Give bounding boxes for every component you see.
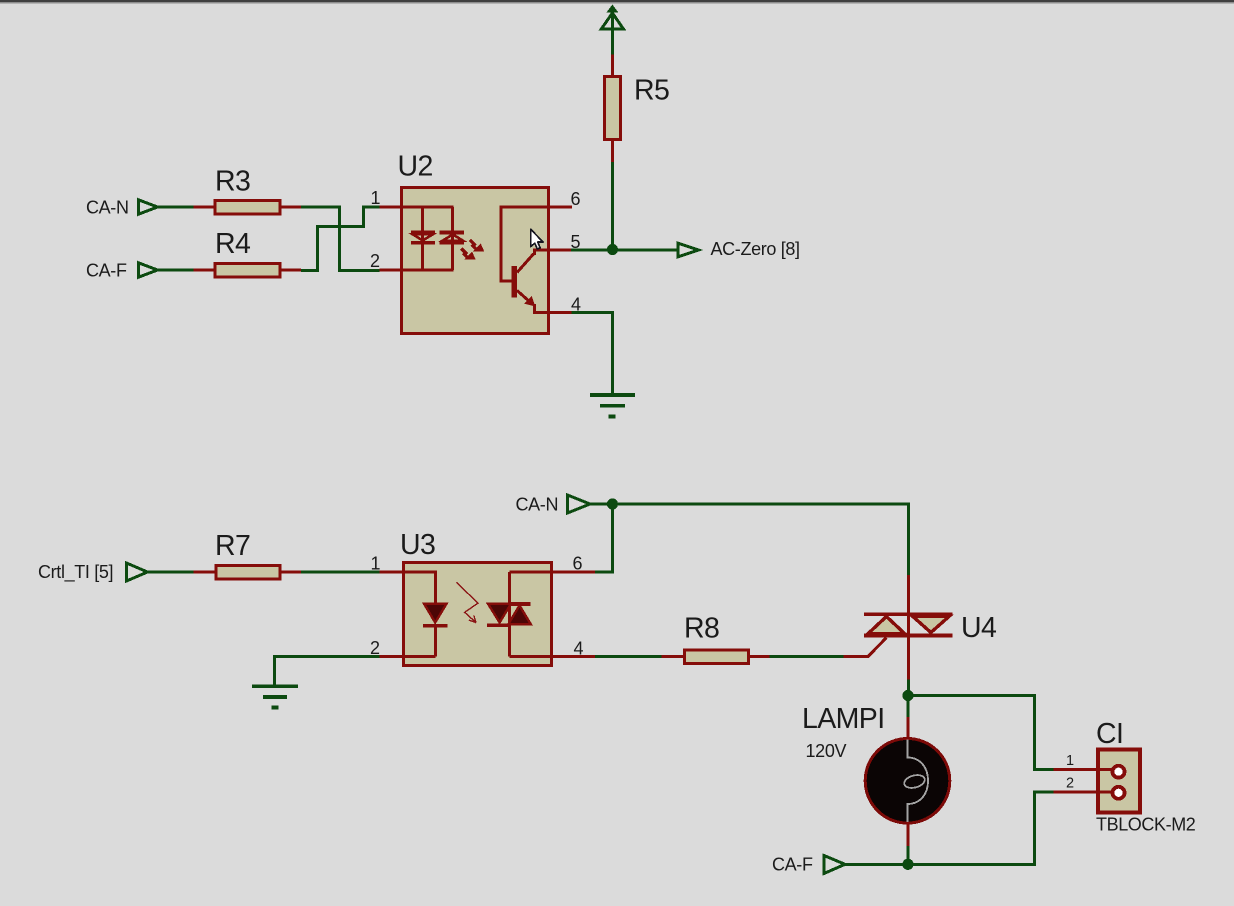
terminal CA-N (lamp section) — [568, 495, 591, 513]
label CA-N (lamp section) — [516, 495, 559, 515]
svg-text:1: 1 — [371, 188, 381, 208]
svg-text:R3: R3 — [215, 166, 250, 198]
terminal AC-Zero — [678, 243, 699, 257]
junction node CA-N — [607, 498, 618, 509]
svg-text:R4: R4 — [215, 228, 251, 260]
svg-text:R8: R8 — [684, 613, 719, 645]
wire: Crtl_TI to R7 — [148, 571, 195, 574]
U3 light arrow — [456, 582, 478, 622]
label R8 — [684, 613, 719, 645]
U2 pin 5 number — [571, 232, 581, 252]
U2 pin 4 stub — [549, 311, 572, 314]
U2 input LED pair — [401, 207, 464, 270]
terminal Crtl_TI — [127, 563, 148, 581]
wire: U4 to lamp junction — [907, 680, 910, 697]
wire: R3 to U2 pin 2 (crossover) — [301, 207, 380, 271]
label R7 — [215, 530, 250, 562]
power terminal (+V arrow) — [601, 5, 623, 31]
label TBLOCK-M2 — [1096, 815, 1196, 835]
svg-text:2: 2 — [370, 251, 380, 271]
label Crtl_TI [5] — [38, 562, 113, 583]
svg-text:CA-F: CA-F — [772, 855, 813, 875]
label CI — [1096, 718, 1123, 750]
svg-text:AC-Zero [8]: AC-Zero [8] — [711, 239, 800, 259]
label CA-F (lamp section) — [772, 855, 813, 875]
wire: junction to CI pin 1 — [908, 696, 1054, 770]
svg-text:U4: U4 — [961, 612, 997, 644]
CI pin 1 lead — [1053, 768, 1112, 771]
top window edge — [0, 0, 1234, 4]
U2 phototransistor — [501, 207, 549, 313]
CI pin 1 pad — [1113, 766, 1125, 778]
U4 gate lead — [843, 638, 886, 657]
U2 pin 1 number — [371, 188, 381, 208]
wire: R7 to U3 pin 1 — [301, 571, 380, 574]
label AC-Zero [8] — [711, 239, 800, 259]
junction node lamp bottom — [902, 859, 913, 870]
resistor R8 — [662, 650, 770, 664]
svg-text:TBLOCK-M2: TBLOCK-M2 — [1096, 815, 1196, 835]
svg-text:6: 6 — [571, 189, 581, 209]
wire: R5 to node AC-Zero — [611, 162, 614, 251]
wire: pin 4 to ground — [572, 313, 613, 394]
U2 light arrow 1 — [470, 240, 484, 251]
resistor R3 — [194, 201, 302, 215]
U2 pin 2 stub — [379, 269, 401, 272]
label CA-F — [86, 261, 127, 281]
label LAMPI — [802, 703, 885, 735]
resistor R5 — [604, 55, 620, 163]
optocoupler U2 body — [402, 188, 549, 334]
optocoupler U3 body — [404, 563, 552, 666]
mouse cursor — [531, 229, 543, 249]
wire: CA-F to R4 — [158, 269, 195, 272]
U3 pin 1 number — [371, 554, 381, 574]
label R5 — [634, 75, 669, 107]
wire: power to R5 — [611, 30, 614, 55]
wire: R8 to U4 gate — [770, 655, 844, 658]
U3 pin 6 stub — [552, 571, 595, 574]
svg-text:1: 1 — [371, 554, 381, 574]
svg-text:CA-N: CA-N — [86, 198, 129, 218]
resistor R7 — [194, 566, 302, 580]
svg-text:6: 6 — [573, 554, 583, 574]
svg-text:CI: CI — [1096, 718, 1123, 750]
label U3 — [400, 529, 435, 561]
wire: CA-F to CI pin 2 — [845, 792, 1054, 864]
U3 pin 2 stub — [379, 655, 403, 658]
svg-text:2: 2 — [1066, 776, 1074, 792]
U2 light arrow 2 — [461, 249, 475, 260]
svg-text:4: 4 — [574, 639, 584, 659]
lamp bottom lead — [907, 822, 910, 864]
wire: CA-N node to triac U4 — [612, 504, 908, 576]
svg-text:CA-F: CA-F — [86, 261, 127, 281]
wire: R4 to U2 pin 1 (crossover) — [301, 207, 380, 271]
junction node at R5 / pin 5 — [607, 244, 618, 255]
label R3 — [215, 166, 250, 198]
triac U4 — [864, 614, 953, 636]
label CA-N — [86, 198, 129, 218]
terminal CA-F (lamp section) — [824, 856, 845, 874]
CI pin 1 number — [1066, 753, 1074, 769]
svg-text:CA-N: CA-N — [516, 495, 559, 515]
svg-text:U3: U3 — [400, 529, 435, 561]
wire: CA-N terminal to junction — [590, 503, 613, 506]
lead U4 MT1 down — [907, 636, 910, 680]
label U2 — [398, 151, 433, 183]
svg-text:1: 1 — [1066, 753, 1074, 769]
CI pin 2 pad — [1113, 787, 1125, 799]
ground (U3 LED cathode) — [252, 686, 298, 707]
ground (U2 emitter) — [590, 395, 635, 416]
U3 pin 6 number — [573, 554, 583, 574]
label R4 — [215, 228, 251, 260]
CI pin 2 number — [1066, 776, 1074, 792]
connector CI (TBLOCK-M2) — [1098, 750, 1140, 813]
wire: CA-N to R3 — [158, 206, 195, 209]
lamp LAMPI — [865, 739, 950, 824]
U2 pin 5 stub — [549, 249, 571, 252]
U2 pin 1 stub — [379, 206, 401, 209]
U3 pin 1 stub — [379, 571, 403, 574]
wire: U3 pin 6 up to CA-N node — [595, 505, 612, 572]
lamp top lead — [907, 696, 910, 741]
junction node lamp top — [902, 690, 913, 701]
wire: U3 pin 4 to R8 — [595, 655, 662, 658]
wire: pin 2 to ground — [275, 657, 380, 685]
terminal CA-F — [139, 263, 158, 277]
svg-text:120V: 120V — [806, 741, 847, 761]
CI pin 2 lead — [1053, 791, 1112, 794]
svg-text:R7: R7 — [215, 530, 250, 562]
U3 input LED — [403, 572, 447, 657]
U3 pin 4 stub — [552, 655, 595, 658]
U2 pin 6 stub (n.c.) — [549, 206, 572, 209]
U2 pin 2 number — [370, 251, 380, 271]
resistor R4 — [194, 264, 302, 278]
svg-text:Crtl_TI [5]: Crtl_TI [5] — [38, 562, 113, 583]
U3 output photo-triac — [487, 572, 552, 657]
wire: pin 5 to AC-Zero terminal — [571, 249, 678, 252]
lead into U4 MT2 — [907, 575, 910, 614]
U2 pin 4 number — [571, 295, 581, 315]
U3 pin 2 number — [370, 638, 380, 658]
svg-text:U2: U2 — [398, 151, 433, 183]
label 120V — [806, 741, 847, 761]
svg-text:LAMPI: LAMPI — [802, 703, 885, 735]
U3 pin 4 number — [574, 639, 584, 659]
U2 pin 6 number — [571, 189, 581, 209]
terminal CA-N — [139, 200, 158, 214]
svg-text:R5: R5 — [634, 75, 669, 107]
label U4 — [961, 612, 997, 644]
